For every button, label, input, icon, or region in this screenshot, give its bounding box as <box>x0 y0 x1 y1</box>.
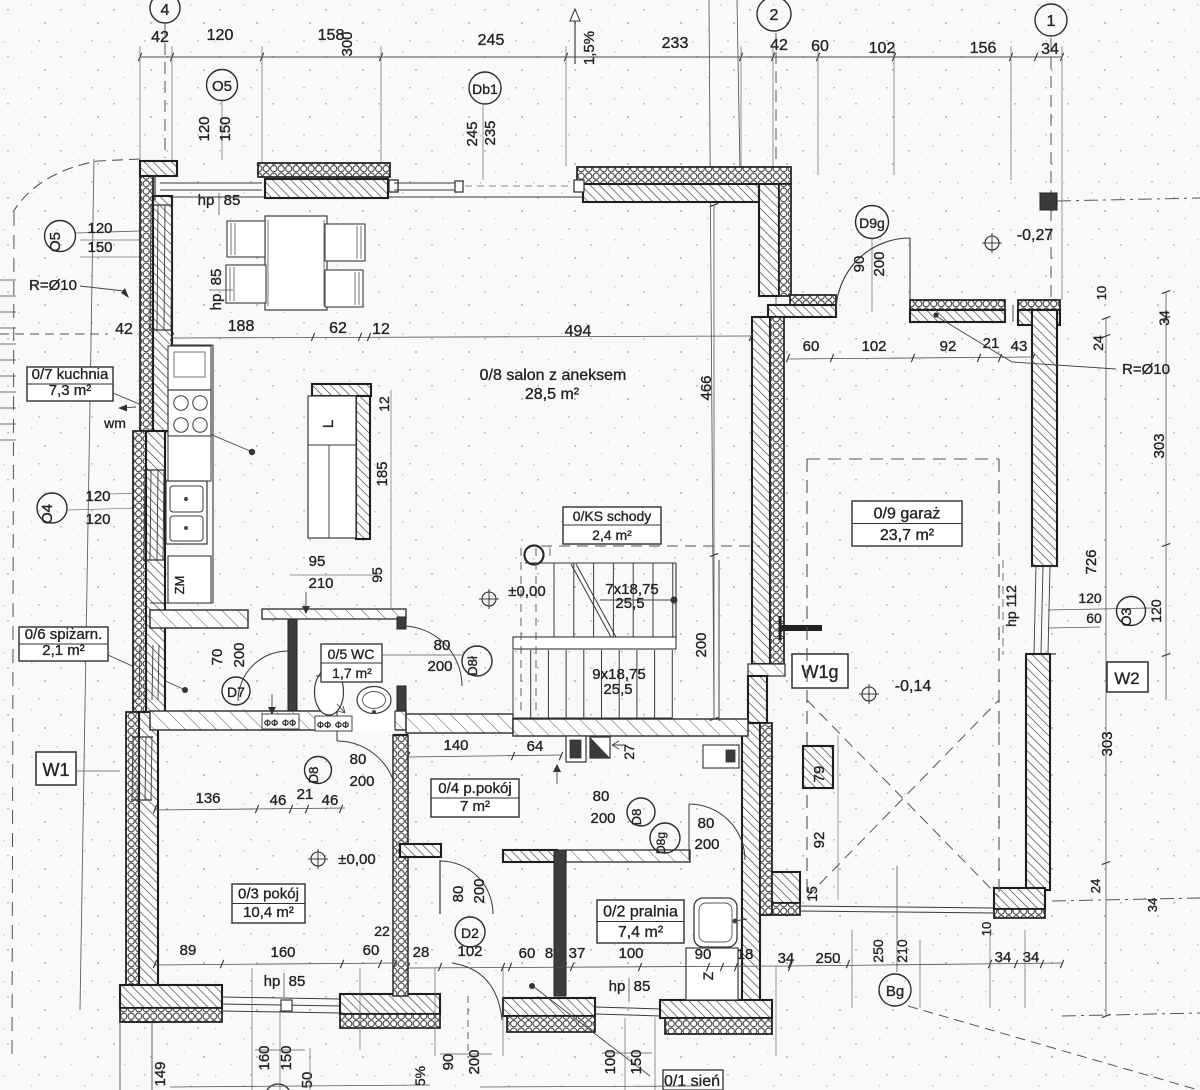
door bubble D7 <box>222 677 250 705</box>
garage bottom-left corner block <box>748 872 800 903</box>
WC right wall stub <box>397 686 406 715</box>
svg-text:185: 185 <box>374 461 391 486</box>
svg-text:O5: O5 <box>212 78 232 95</box>
svg-text:85: 85 <box>634 978 651 995</box>
property line left vertical dashed <box>12 212 14 1055</box>
svg-text:80: 80 <box>698 815 715 832</box>
svg-text:34: 34 <box>1041 41 1059 58</box>
svg-text:10: 10 <box>979 922 994 936</box>
svg-text:200: 200 <box>693 632 710 657</box>
svg-text:27: 27 <box>621 744 637 760</box>
WC top wall <box>262 609 406 619</box>
salon top wall insulation <box>577 167 791 184</box>
svg-text:200: 200 <box>590 810 615 827</box>
svg-text:120: 120 <box>1078 590 1102 606</box>
bottom wall block 3 masonry <box>503 998 595 1016</box>
stairs upper flight treads <box>525 562 676 564</box>
level 0.00 hall <box>482 592 496 606</box>
kitchen dishwasher ZM <box>168 556 211 603</box>
house right wall upper insulation <box>770 317 784 664</box>
property edge vertical left <box>80 159 94 1010</box>
svg-text:18: 18 <box>737 946 754 963</box>
door bubble D8 pralnia <box>627 798 655 826</box>
dim 466 200 vertical line right of stairs <box>713 205 715 719</box>
svg-text:85: 85 <box>208 269 225 286</box>
svg-text:210: 210 <box>894 939 910 963</box>
hall wall stub B <box>503 850 557 862</box>
svg-text:102: 102 <box>861 338 886 355</box>
room label 0/9 garaz <box>852 501 962 546</box>
grid axis 2 dashed <box>775 33 777 168</box>
svg-text:22: 22 <box>374 923 390 939</box>
svg-text:8: 8 <box>545 945 553 962</box>
svg-text:303: 303 <box>1099 731 1116 756</box>
WC vent arrow <box>271 694 273 712</box>
svg-text:136: 136 <box>195 790 220 807</box>
svg-text:1,7 m²: 1,7 m² <box>332 665 372 681</box>
svg-text:120: 120 <box>196 116 213 141</box>
svg-text:0/9 garaż: 0/9 garaż <box>874 506 941 523</box>
svg-text:2,1 m²: 2,1 m² <box>42 642 85 659</box>
svg-text:25,5: 25,5 <box>615 595 644 612</box>
dim row 140 64 <box>408 755 561 757</box>
svg-text:46: 46 <box>322 792 339 809</box>
bottom wall left corner insulation <box>120 1008 222 1022</box>
svg-text:60: 60 <box>811 38 829 55</box>
door bubble D2 <box>455 917 485 947</box>
salon top wall masonry <box>583 184 788 202</box>
eaves arc R=O10 top-left <box>13 159 140 212</box>
house right wall lower insulation <box>760 723 772 915</box>
house right wall upper masonry <box>752 317 770 664</box>
kitchen counter outline <box>212 345 214 603</box>
corridor wall below WC <box>150 711 406 730</box>
spizarnia right wall <box>288 617 297 713</box>
svg-text:ΦΦ: ΦΦ <box>264 718 278 728</box>
svg-text:1: 1 <box>1047 13 1056 30</box>
kitchen sink double <box>166 481 207 544</box>
svg-text:80: 80 <box>450 886 467 903</box>
grid bubble 2 <box>757 0 791 31</box>
top wall corner block kitchen <box>140 161 177 176</box>
svg-text:89: 89 <box>180 942 197 959</box>
wall between 03 and 04 <box>393 735 408 996</box>
svg-text:90: 90 <box>695 946 712 963</box>
stairs bottom wall <box>513 719 748 736</box>
svg-text:5%: 5% <box>412 1066 428 1086</box>
kitchen window 1 top wall <box>160 182 262 184</box>
window bubble O5 left <box>45 221 76 252</box>
door D8 to room 03 arc <box>337 741 397 801</box>
svg-text:188: 188 <box>228 318 255 335</box>
svg-text:200: 200 <box>231 642 248 667</box>
svg-text:7 m²: 7 m² <box>460 798 490 815</box>
svg-text:102: 102 <box>457 943 482 960</box>
svg-text:140: 140 <box>443 737 468 754</box>
garage right wall lower <box>1026 654 1050 890</box>
svg-text:hp 112: hp 112 <box>1003 585 1019 627</box>
svg-text:60: 60 <box>803 338 820 355</box>
grid axis 1 dashed <box>1050 38 1052 310</box>
svg-text:250: 250 <box>870 939 886 963</box>
svg-text:10: 10 <box>1094 286 1109 300</box>
axis line Bg vertical <box>896 866 898 972</box>
svg-text:15: 15 <box>804 886 820 902</box>
svg-text:-0,27: -0,27 <box>1017 227 1054 244</box>
kitchen window left wall <box>150 205 151 330</box>
svg-text:12: 12 <box>376 396 392 412</box>
svg-text:0/7 kuchnia: 0/7 kuchnia <box>32 366 109 383</box>
spizarnia window left wall <box>139 645 140 700</box>
entry door arc <box>452 963 502 1020</box>
WC toilet <box>315 669 344 715</box>
stairs middle rail <box>513 637 676 649</box>
nook cabinet <box>703 745 739 768</box>
svg-text:120: 120 <box>207 27 234 44</box>
svg-text:hp: hp <box>609 978 626 995</box>
svg-text:hp: hp <box>264 973 281 990</box>
svg-text:21: 21 <box>297 786 314 803</box>
svg-text:160: 160 <box>256 1045 273 1070</box>
door D8 hall arc <box>440 861 493 914</box>
svg-text:149: 149 <box>152 1061 169 1086</box>
stairs dashed headroom lines <box>520 548 522 716</box>
slope arrow 1.5% <box>574 18 576 64</box>
door D9g arc <box>836 238 910 312</box>
svg-text:42: 42 <box>151 29 169 46</box>
door axis bubble Db1 <box>469 72 501 104</box>
svg-text:85: 85 <box>289 973 306 990</box>
svg-text:7,4 m²: 7,4 m² <box>618 924 664 941</box>
room label 0/3 pokoj <box>232 884 305 923</box>
svg-text:2: 2 <box>770 7 779 24</box>
svg-text:D8: D8 <box>629 809 644 826</box>
garage step wall masonry <box>768 305 836 317</box>
svg-text:120: 120 <box>85 511 110 528</box>
svg-text:25,5: 25,5 <box>603 681 632 698</box>
svg-text:7,3 m²: 7,3 m² <box>49 382 92 399</box>
door bubble D8g <box>650 823 680 853</box>
svg-text:37: 37 <box>569 945 586 962</box>
open boundary dashed salon-hall <box>541 545 760 547</box>
dim extension line page top x737 <box>737 0 740 172</box>
svg-text:Bg: Bg <box>886 983 904 1000</box>
svg-text:0/3 pokój: 0/3 pokój <box>238 886 299 903</box>
neighbour hatch marks left edge <box>0 279 16 281</box>
garage top dim row 60 102 92 21 43 <box>788 357 1033 359</box>
hall meter box 2 <box>590 737 610 758</box>
door D8 hall leaf <box>439 860 441 914</box>
svg-text:42: 42 <box>115 321 133 338</box>
chair top-left <box>227 221 265 257</box>
kitchen window 2 top wall <box>394 182 461 184</box>
svg-text:95: 95 <box>309 553 326 570</box>
bottom wall pralnia masonry <box>660 1000 772 1018</box>
terrace dashed edge top <box>465 185 573 187</box>
svg-text:hp: hp <box>198 192 215 209</box>
garage step wall insulation <box>790 295 836 305</box>
svg-text:±0,00: ±0,00 <box>508 583 545 600</box>
pralnia top wall <box>566 850 690 862</box>
bottom wall block 2 masonry <box>340 994 440 1014</box>
axis dash-dot right of garage corner <box>1052 898 1200 901</box>
pipe marker boxes under WC <box>262 714 299 729</box>
svg-text:24: 24 <box>1090 335 1106 351</box>
window left wall mid <box>144 470 145 560</box>
stairs lower flight treads <box>512 650 514 718</box>
WC top wall end step <box>397 617 406 629</box>
chair bottom-right <box>325 270 363 307</box>
bottom extension lines <box>251 968 253 1090</box>
svg-text:O5: O5 <box>47 232 64 252</box>
svg-text:W1: W1 <box>43 760 70 780</box>
dim row 188 62 12 <box>172 336 751 338</box>
door D8t arc <box>402 626 462 686</box>
bottom dim chain right <box>790 963 1062 966</box>
svg-text:60: 60 <box>1086 610 1102 626</box>
svg-text:120: 120 <box>87 220 112 237</box>
room label 0/1 sien with leader <box>663 1070 723 1090</box>
svg-text:235: 235 <box>482 120 499 145</box>
door axis bubble D9g <box>856 206 889 239</box>
dashed line 42 left <box>0 333 108 335</box>
bottom wall pralnia insulation <box>665 1018 772 1034</box>
salon wardrobe wall stub top bar <box>312 384 371 396</box>
grid bubble 1 <box>1035 4 1067 36</box>
svg-text:hp: hp <box>208 294 225 311</box>
garage top wall insulation <box>910 300 1005 310</box>
svg-text:150: 150 <box>87 239 112 256</box>
svg-text:60: 60 <box>519 945 536 962</box>
pralnia appliance Z <box>686 948 738 1000</box>
hall wall stub A <box>400 844 441 857</box>
svg-text:245: 245 <box>464 121 481 146</box>
svg-text:120: 120 <box>85 488 110 505</box>
svg-text:150: 150 <box>217 116 234 141</box>
svg-text:120: 120 <box>1148 599 1164 623</box>
svg-text:43: 43 <box>1011 338 1028 355</box>
top wall shutter window sill <box>265 179 388 198</box>
window label W1 <box>36 752 76 785</box>
svg-text:R=Ø10: R=Ø10 <box>29 277 77 294</box>
svg-text:Db1: Db1 <box>472 81 498 97</box>
room label 0/2 pralnia <box>597 900 684 943</box>
garage top-right corner block <box>1018 300 1060 310</box>
svg-text:0/1 sień: 0/1 sień <box>664 1073 720 1090</box>
svg-text:0/8 salon z aneksem: 0/8 salon z aneksem <box>480 367 627 384</box>
svg-text:62: 62 <box>329 320 347 337</box>
svg-text:250: 250 <box>815 950 840 967</box>
black square grid1 marker <box>1040 193 1057 210</box>
svg-text:80: 80 <box>434 637 451 654</box>
svg-text:70: 70 <box>209 649 226 666</box>
svg-text:34: 34 <box>995 949 1012 966</box>
svg-text:ΦΦ: ΦΦ <box>335 720 349 730</box>
svg-text:64: 64 <box>527 738 544 755</box>
bottom wall left corner block masonry <box>120 985 222 1008</box>
svg-text:79: 79 <box>811 766 828 783</box>
hall meter box 1 <box>566 736 586 762</box>
top dimension chain line <box>140 56 1062 58</box>
svg-text:42: 42 <box>770 37 788 54</box>
bottom dim chain left <box>155 963 395 965</box>
svg-text:80: 80 <box>350 751 367 768</box>
svg-text:23,7 m²: 23,7 m² <box>880 527 935 544</box>
svg-text:D2: D2 <box>461 925 479 941</box>
svg-text:303: 303 <box>1151 433 1168 458</box>
axis bubble cut at page bottom <box>265 1084 291 1090</box>
svg-text:D9g: D9g <box>859 215 885 231</box>
diagonal dashed from Bg to corner <box>908 1006 1195 1089</box>
door D8 to room 03 opening <box>337 710 395 731</box>
svg-text:466: 466 <box>698 375 715 400</box>
svg-text:D7: D7 <box>227 684 245 700</box>
window 0/3 bottom wall <box>222 997 340 999</box>
grid axis 4 dashed <box>164 24 166 158</box>
right dim line outer 303 <box>1165 292 1167 700</box>
svg-text:D8: D8 <box>306 767 321 784</box>
garage bottom-right corner block <box>994 888 1045 909</box>
dining table <box>265 216 327 310</box>
salon tall cupboard L <box>308 396 356 538</box>
svg-text:1,5%: 1,5% <box>581 31 598 65</box>
garage right wall window <box>1032 565 1056 567</box>
room label 0/6 spizarnia <box>19 627 108 661</box>
left exterior wall upper insulation <box>140 161 153 431</box>
stairs cut line diagonal <box>571 564 611 637</box>
top wall shutter window insulation <box>258 163 390 177</box>
right horizontal dim lines O3 <box>1048 608 1152 610</box>
svg-text:200: 200 <box>694 836 719 853</box>
axis bubble O3 <box>1117 597 1146 626</box>
svg-text:10,4 m²: 10,4 m² <box>243 904 294 921</box>
svg-text:34: 34 <box>778 950 795 967</box>
svg-text:34: 34 <box>1145 898 1160 912</box>
window label W2 <box>1107 662 1148 692</box>
svg-text:95: 95 <box>369 567 385 583</box>
house right wall lower masonry <box>742 723 760 1002</box>
door bubble D8t <box>462 646 492 676</box>
door W1g leaf symbol <box>780 625 822 631</box>
svg-text:±0,00: ±0,00 <box>338 851 375 868</box>
bottom wall block 2 insulation <box>340 1014 440 1028</box>
svg-text:80: 80 <box>593 788 610 805</box>
dim row 136 46 21 46 <box>155 808 345 810</box>
svg-text:85: 85 <box>224 192 241 209</box>
svg-text:200: 200 <box>871 251 888 276</box>
garage cross diagonal 1 <box>807 700 999 897</box>
chair bottom-left <box>226 265 266 303</box>
svg-text:0/2 pralnia: 0/2 pralnia <box>603 904 678 921</box>
garage top wall masonry <box>910 310 1005 322</box>
svg-text:494: 494 <box>565 323 592 340</box>
stairs walk line dot <box>671 597 678 604</box>
stairwell right edge line <box>718 560 720 721</box>
svg-text:300: 300 <box>339 31 356 56</box>
garage chimney block <box>803 746 833 788</box>
svg-text:0/KS schody: 0/KS schody <box>573 508 652 524</box>
room label 0/5 WC <box>321 644 382 682</box>
svg-text:233: 233 <box>662 35 689 52</box>
rotated pair divider lines bottom <box>255 1049 305 1051</box>
axis bubble Bg <box>879 974 911 1006</box>
svg-text:210: 210 <box>308 575 333 592</box>
svg-text:L: L <box>320 420 337 428</box>
house right wall below W1g <box>748 676 767 723</box>
axis dash-dot bottom-right y1016 <box>1062 1013 1200 1016</box>
garage top wall pillar gap <box>1004 305 1006 322</box>
svg-text:D8ł: D8ł <box>465 656 480 676</box>
chair top-right <box>325 224 365 261</box>
garage door threshold lines <box>800 906 994 908</box>
right dim line inner 726 <box>1105 318 1107 1016</box>
svg-text:160: 160 <box>270 944 295 961</box>
svg-text:156: 156 <box>970 40 997 57</box>
svg-text:2,4 m²: 2,4 m² <box>592 527 632 543</box>
bottom dim chain middle <box>408 966 790 968</box>
door bubble D8 room03 <box>305 757 332 784</box>
room label 0/KS schody <box>563 507 661 544</box>
door D8g arc <box>689 804 745 860</box>
svg-text:726: 726 <box>1083 549 1100 574</box>
svg-text:D8g: D8g <box>654 832 668 854</box>
kitchen fridge <box>168 346 211 390</box>
svg-text:200: 200 <box>349 773 374 790</box>
svg-text:100: 100 <box>618 945 643 962</box>
dim extension line 466 from page top <box>709 0 714 719</box>
svg-text:200: 200 <box>427 658 452 675</box>
axis dash-dot right y200 <box>1057 198 1200 201</box>
left exterior wall mid masonry <box>146 431 165 712</box>
left exterior wall lower masonry <box>139 712 158 1022</box>
svg-text:92: 92 <box>811 832 828 849</box>
entry door D2 dashed axis <box>467 996 469 1058</box>
svg-text:150: 150 <box>278 1045 295 1070</box>
garage dashed outline <box>806 459 808 897</box>
bottom wall block 3 insulation <box>507 1016 595 1032</box>
WC washbasin <box>357 687 391 714</box>
garage cross diagonal 2 <box>807 700 999 897</box>
left exterior wall mid insulation <box>133 431 146 712</box>
svg-text:4: 4 <box>161 2 170 19</box>
garage right wall upper <box>1032 310 1057 566</box>
svg-text:200: 200 <box>466 1049 483 1074</box>
door W1g threshold <box>748 664 785 676</box>
svg-text:R=Ø10: R=Ø10 <box>1122 361 1170 378</box>
left exterior wall lower insulation <box>126 712 139 1022</box>
level -0.27 garage apron <box>985 236 999 250</box>
level -0.14 garage <box>862 687 876 701</box>
svg-text:ZM: ZM <box>172 576 187 595</box>
svg-text:Z: Z <box>700 971 716 980</box>
room label 0/4 p.pokoj <box>431 779 519 817</box>
room label 0/7 kuchnia <box>27 367 113 401</box>
level 0.00 room03 <box>311 852 325 866</box>
salon right wall masonry <box>759 184 779 296</box>
svg-text:92: 92 <box>940 338 957 355</box>
svg-text:46: 46 <box>270 792 287 809</box>
svg-text:-0,14: -0,14 <box>895 678 932 695</box>
window axis bubble O5 top <box>207 70 238 101</box>
left exterior wall upper masonry <box>153 196 172 431</box>
svg-text:245: 245 <box>478 32 505 49</box>
svg-text:0/5 WC: 0/5 WC <box>328 646 375 662</box>
svg-text:W2: W2 <box>1114 669 1140 688</box>
bottom cut lines <box>119 1022 121 1090</box>
wall between 04 and pralnia <box>554 850 566 996</box>
pralnia sink <box>694 898 737 947</box>
window W1 left wall <box>132 737 133 800</box>
